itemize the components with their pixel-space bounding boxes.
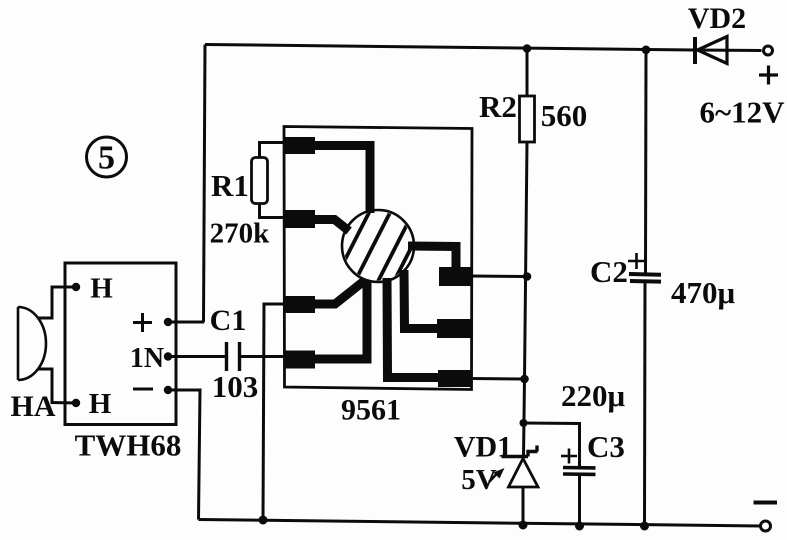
svg-text:VD2: VD2 [688,2,746,35]
wire top rail [205,45,694,51]
pin dot - [164,386,172,394]
wire bottom rail [199,520,761,527]
wire C3 to bottom rail [578,475,581,526]
minus sign at - terminal [754,501,778,505]
IC 9561 pad L1 [284,137,315,154]
wire 1N to C1 [168,355,225,358]
IC 9561 pad L3 [284,296,315,313]
terminal + (open circle) [764,46,773,55]
capacitor C2 plates [629,274,661,282]
junction bottom rail VD1 [519,521,528,530]
wire top rail to C2 [644,50,648,273]
wire C2 to bottom rail [643,282,647,527]
wire VD1 cathode lead to bottom rail [522,487,525,525]
IC 9561 pad R3 [438,370,471,387]
capacitor C3 plates [563,468,596,475]
wire VD2 to + terminal [694,49,762,53]
IC 9561 bond trace die to pad R1 [408,246,456,271]
IC 9561 outline [284,127,472,390]
IC 9561 bond trace pad L3 to die [312,281,364,304]
svg-text:470μ: 470μ [671,275,736,310]
pin dot 1N [164,352,172,360]
plus polarity mark C2 [628,253,645,269]
plus sign inside TWH68 [133,313,152,332]
junction bottom rail C3 [575,522,584,531]
IC 9561 pad R1 [439,267,471,286]
wire pad L3 to bottom rail [263,304,291,520]
IC 9561 bond trace die to pad R2 [404,270,441,329]
svg-text:5: 5 [98,140,115,177]
resistor R1 body [252,158,268,204]
svg-text:C3: C3 [587,429,625,464]
svg-text:220μ: 220μ [561,378,626,413]
wire - pin to bottom rail [168,390,200,520]
wire C3 branch [524,423,580,467]
resistor R2 body [520,96,535,142]
minus sign inside TWH68 [133,388,153,391]
wire pad R3 to junction [471,377,525,381]
IC 9561 pad R2 [437,319,471,338]
capacitor C1 plates [227,342,240,371]
arrow head of 5V leader [494,468,505,479]
figure number circled 5 [87,137,127,177]
junction top rail C2 [642,46,651,55]
junction bottom rail x264 [259,516,268,525]
block U2 TWH68 outline [65,263,176,425]
junction bottom rail C2 [640,522,649,531]
svg-text:270k: 270k [210,218,271,250]
pin dot H top [72,283,80,291]
svg-text:H: H [89,388,112,420]
svg-text:VD1: VD1 [454,431,512,464]
svg-text:560: 560 [541,98,588,133]
junction R2 bottom / pad R1 [523,272,532,281]
junction top rail R2 [523,44,532,53]
arrow leader from 5V to VD1 [489,474,497,483]
IC 9561 bond trace pad L2 to die [312,220,349,232]
svg-text:HA: HA [11,390,56,423]
speaker HA body [18,307,46,380]
zener diode VD1 [502,446,539,488]
svg-text:R2: R2 [479,89,517,124]
wire pad R1 to R2 bottom junction [471,275,527,279]
wire C1 to IC pad L4 [241,355,291,358]
IC 9561 pad L4 [284,351,315,369]
svg-text:C2: C2 [590,254,628,289]
IC 9561 pad L2 [284,210,315,228]
IC 9561 bond trace die to pad R3 [387,278,440,378]
svg-text:6~12V: 6~12V [699,95,785,130]
wire top rail to R2 [526,49,529,96]
svg-text:TWH68: TWH68 [75,428,182,463]
terminal - (open circle) [761,521,771,531]
junction C3 branch [520,419,528,427]
svg-text:5V: 5V [461,464,497,496]
IC 9561 bond trace pad L1 to die [312,146,370,214]
svg-text:9561: 9561 [341,394,401,427]
diode VD2 [695,37,727,65]
plus polarity mark C3 [561,449,577,464]
svg-text:1N: 1N [130,343,164,374]
wire R1 bottom to pad L2 [260,203,293,218]
wire left vertical from top rail to + pin [204,45,206,323]
svg-text:H: H [90,273,113,305]
plus sign at + terminal [759,66,778,85]
svg-text:C1: C1 [210,304,247,337]
wire + pin stub [168,321,204,324]
svg-text:103: 103 [212,369,259,404]
wire R1 top to pad L1 [260,143,293,159]
IC 9561 bond trace pad L4 to die [313,280,367,359]
svg-text:R1: R1 [211,168,249,203]
wire speaker bottom lead [38,369,76,403]
wire speaker top lead [38,287,76,318]
IC 9561 die hatching [332,206,432,288]
pin dot + [164,318,172,326]
junction pad R3 wire [520,375,529,384]
IC 9561 die circle [342,210,414,282]
pin dot H bottom [72,399,80,407]
wire R2 bottom through junctions to VD1 [524,142,528,457]
